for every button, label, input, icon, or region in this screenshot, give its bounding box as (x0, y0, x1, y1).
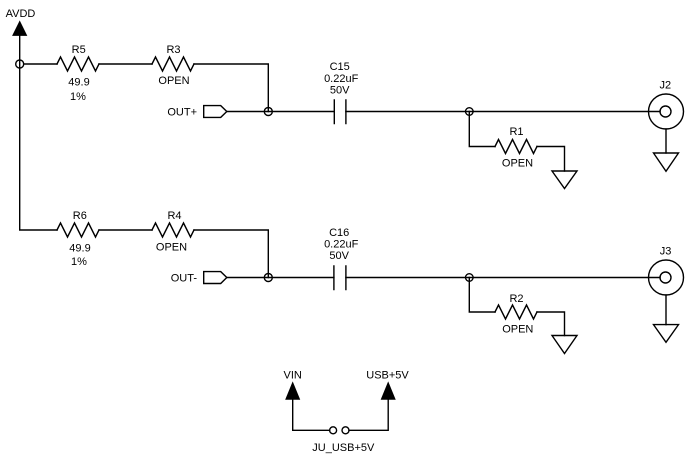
svg-text:OPEN: OPEN (502, 324, 533, 336)
svg-text:VIN: VIN (284, 370, 302, 382)
wire junction to R5 (24, 63, 57, 65)
svg-text:USB+5V: USB+5V (366, 370, 409, 382)
power symbol AVDD (13, 22, 26, 35)
svg-text:R6: R6 (73, 210, 87, 222)
ground R2 (552, 336, 577, 354)
svg-text:C15: C15 (330, 61, 350, 73)
svg-text:0.22uF: 0.22uF (324, 73, 359, 85)
svg-text:J2: J2 (659, 80, 671, 92)
svg-text:OPEN: OPEN (502, 158, 533, 170)
junction node OUT- (264, 274, 272, 282)
wire R1 to ground (537, 147, 565, 172)
svg-text:49.9: 49.9 (69, 243, 90, 255)
svg-text:R2: R2 (509, 293, 523, 305)
wire R4 to OUT- node (194, 230, 268, 278)
svg-text:50V: 50V (330, 85, 350, 97)
power symbol USB+5V (382, 383, 395, 399)
svg-text:AVDD: AVDD (6, 8, 36, 20)
resistor R2 (495, 305, 537, 319)
resistor R6 (57, 223, 99, 237)
wire R1 tap down and to R1 (469, 112, 495, 147)
ground J3 (654, 325, 679, 343)
wire AVDD vertical bus to row 2 (20, 35, 57, 231)
connector J3 (649, 260, 684, 295)
wire C15 to J2 (346, 111, 660, 113)
svg-text:R5: R5 (72, 44, 86, 56)
resistor R1 (495, 140, 537, 154)
wire VIN to jumper (293, 399, 330, 431)
svg-text:OPEN: OPEN (156, 242, 187, 254)
svg-text:1%: 1% (70, 91, 86, 103)
capacitor C16 (334, 266, 346, 290)
wire USB+5V to jumper (349, 399, 388, 431)
connector OUT- (204, 272, 227, 284)
svg-text:R4: R4 (167, 210, 181, 222)
svg-text:49.9: 49.9 (68, 77, 89, 89)
ground J2 (654, 153, 679, 171)
junction node OUT+ (264, 108, 272, 116)
capacitor C15 (334, 100, 346, 124)
wire R5 to R3 (99, 63, 152, 65)
wire J2 to ground (665, 129, 667, 153)
resistor R3 (152, 57, 194, 71)
svg-text:R3: R3 (166, 44, 180, 56)
jumper pin 2 (342, 427, 349, 434)
svg-text:OPEN: OPEN (158, 75, 189, 87)
resistor R5 (57, 57, 99, 71)
wire OUT+ to C15 (227, 111, 334, 113)
svg-text:R1: R1 (509, 126, 523, 138)
power symbol VIN (286, 383, 299, 399)
svg-text:OUT+: OUT+ (167, 107, 197, 119)
connector OUT+ (204, 106, 227, 118)
wire J3 to ground (665, 295, 667, 325)
svg-text:C16: C16 (329, 227, 349, 239)
connector J2 (649, 94, 684, 129)
wire R6 to R4 (99, 229, 152, 231)
junction node AVDD/R5 (16, 60, 24, 68)
svg-text:1%: 1% (71, 256, 87, 268)
ground R1 (552, 171, 577, 189)
wire R2 to ground (537, 312, 565, 336)
svg-text:OUT-: OUT- (171, 273, 198, 285)
wire OUT- to C16 (227, 277, 334, 279)
svg-text:JU_USB+5V: JU_USB+5V (312, 442, 375, 454)
junction node R1 tap (466, 108, 474, 116)
wire R2 tap down and to R2 (469, 278, 495, 313)
svg-text:J3: J3 (660, 246, 672, 258)
svg-text:0.22uF: 0.22uF (324, 239, 359, 251)
svg-text:50V: 50V (329, 250, 349, 262)
wire R3 to OUT+ node (194, 64, 268, 112)
junction node R2 tap (466, 274, 474, 282)
resistor R4 (152, 223, 194, 237)
jumper pin 1 (330, 427, 337, 434)
wire C16 to J3 (346, 277, 660, 279)
